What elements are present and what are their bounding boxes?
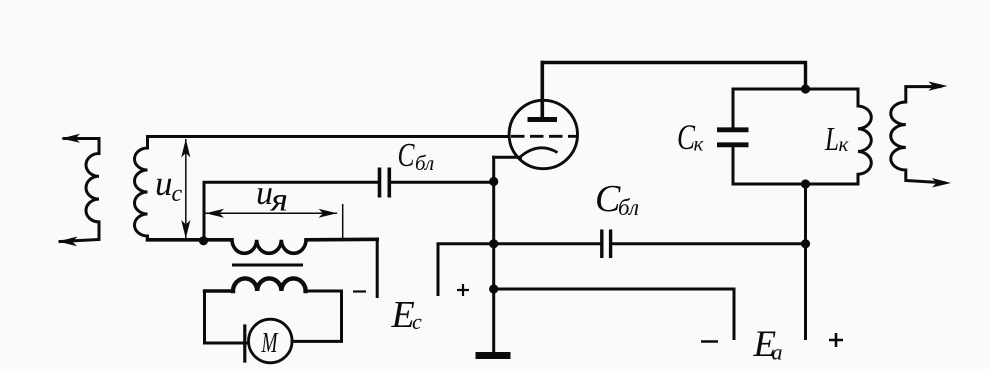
svg-text:L: L (824, 121, 839, 158)
svg-text:M: M (261, 327, 279, 359)
svg-text:я: я (270, 183, 288, 219)
svg-text:с: с (172, 181, 183, 207)
svg-text:к: к (839, 132, 849, 156)
svg-text:бл: бл (618, 195, 639, 220)
svg-text:C: C (398, 137, 415, 174)
svg-text:с: с (412, 309, 422, 334)
svg-text:к: к (694, 132, 704, 156)
svg-text:бл: бл (415, 151, 434, 175)
svg-text:а: а (772, 340, 783, 365)
svg-text:u: u (155, 164, 173, 203)
